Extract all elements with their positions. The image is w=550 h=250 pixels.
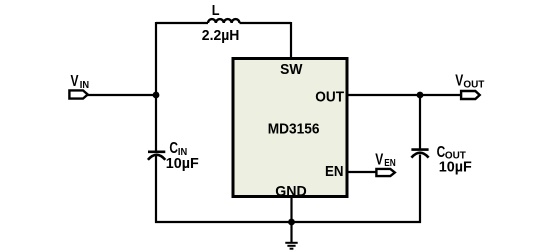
svg-text:OUT: OUT (463, 79, 485, 91)
wire top rail right segment (240, 22, 292, 24)
IC U1 MD3156 body (233, 59, 347, 197)
wire right vertical upper (419, 95, 421, 150)
svg-text:10µF: 10µF (439, 159, 472, 176)
svg-text:V: V (71, 73, 79, 90)
capacitor CIN bottom plate (curved) (148, 155, 165, 160)
port flag VEN (376, 169, 394, 176)
wire left vertical upper (155, 22, 157, 151)
svg-text:EN: EN (325, 163, 344, 180)
node junction OUT (417, 92, 424, 99)
inductor L1 coil (208, 19, 240, 23)
svg-text:V: V (375, 152, 383, 169)
svg-text:2.2µH: 2.2µH (202, 27, 240, 44)
svg-text:MD3156: MD3156 (268, 120, 320, 137)
svg-text:SW: SW (280, 61, 303, 78)
svg-text:10µF: 10µF (166, 155, 199, 172)
wire OUT horizontal (348, 94, 461, 96)
wire bottom rail (155, 221, 421, 223)
wire EN horizontal (348, 171, 377, 173)
ground symbol (285, 243, 297, 249)
capacitor COUT top plate (411, 148, 428, 151)
wire GND stem (290, 196, 292, 242)
capacitor COUT bottom plate (curved) (411, 153, 428, 158)
port flag VOUT (461, 91, 480, 99)
svg-text:V: V (455, 73, 463, 90)
wire right vertical lower (419, 155, 421, 224)
svg-text:IN: IN (80, 79, 89, 91)
wire top rail left segment (156, 22, 208, 24)
svg-text:EN: EN (384, 157, 396, 169)
wire SW stem (290, 22, 292, 58)
node junction GND (288, 219, 295, 226)
svg-text:L: L (212, 2, 220, 19)
wire left vertical lower (155, 156, 157, 223)
port flag VIN (69, 90, 87, 98)
capacitor CIN top plate (148, 151, 165, 154)
wire VIN horizontal (87, 94, 157, 96)
svg-text:OUT: OUT (315, 89, 344, 106)
node junction VIN (153, 92, 160, 99)
